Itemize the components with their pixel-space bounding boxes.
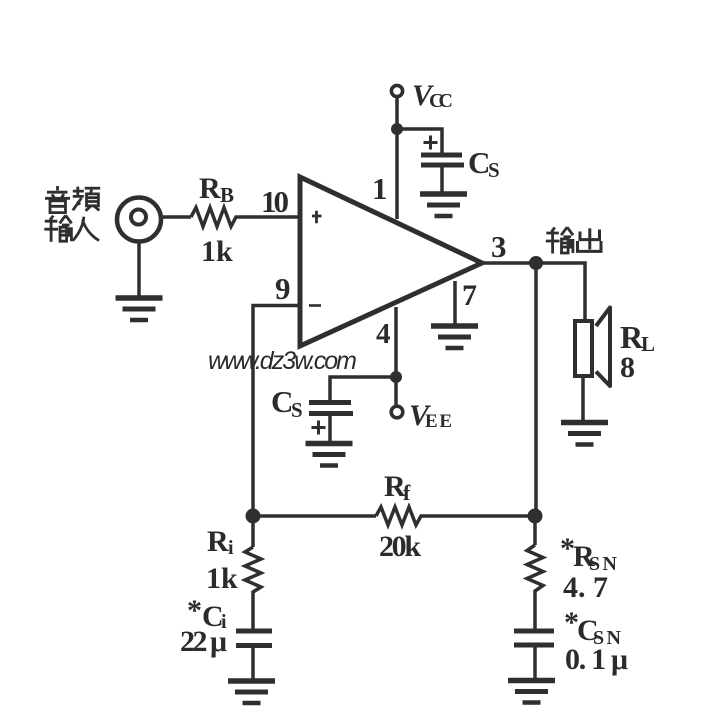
svg-text:22 μ: 22 μ — [180, 625, 227, 658]
svg-text:1k: 1k — [206, 562, 238, 595]
svg-text:*: * — [187, 594, 202, 627]
svg-text:20k: 20k — [379, 530, 421, 563]
svg-text:8: 8 — [620, 351, 635, 384]
svg-text:L: L — [641, 332, 655, 356]
svg-text:0. 1 μ: 0. 1 μ — [565, 643, 628, 676]
svg-text:R: R — [199, 172, 221, 205]
svg-text:1k: 1k — [201, 235, 233, 268]
svg-text:www.dz3w.com: www.dz3w.com — [208, 347, 357, 375]
svg-text:i: i — [228, 537, 234, 559]
svg-text:7: 7 — [462, 279, 477, 312]
svg-text:4: 4 — [376, 318, 391, 350]
svg-text:3: 3 — [491, 229, 507, 264]
svg-text:CC: CC — [429, 90, 453, 112]
svg-text:B: B — [220, 183, 234, 207]
svg-text:1: 1 — [372, 171, 388, 206]
svg-text:4. 7: 4. 7 — [563, 571, 608, 604]
svg-text:10: 10 — [261, 184, 289, 219]
svg-text:S: S — [291, 398, 303, 422]
svg-text:9: 9 — [275, 271, 291, 306]
svg-text:EE: EE — [425, 411, 452, 432]
svg-text:R: R — [207, 525, 229, 558]
svg-text:S: S — [488, 158, 500, 182]
svg-text:f: f — [403, 480, 411, 505]
